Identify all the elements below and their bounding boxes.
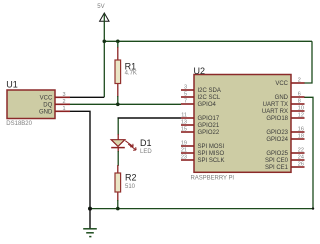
svg-text:3: 3: [184, 85, 187, 91]
resistor R2: [115, 165, 121, 209]
svg-text:23: 23: [181, 155, 187, 161]
left pin names U2: [198, 88, 225, 164]
svg-text:5V: 5V: [97, 4, 104, 10]
svg-text:5: 5: [184, 92, 187, 98]
wire GPIO17 vertical to LED: [117, 119, 119, 136]
pin stub U2.15: [181, 131, 194, 133]
corner dot bottom right: [312, 207, 314, 209]
pin stub U2.19: [181, 145, 194, 147]
svg-text:I2C SCL: I2C SCL: [198, 95, 221, 101]
svg-text:SPI CE0: SPI CE0: [265, 158, 289, 164]
pin stub U2.24: [291, 159, 305, 161]
ground symbol: [83, 209, 97, 237]
svg-text:7: 7: [184, 99, 187, 105]
pin stub U2.13: [181, 124, 194, 126]
wire VCC right vertical: [304, 41, 312, 83]
pin stub U2.18: [291, 138, 305, 140]
svg-text:4.7K: 4.7K: [125, 71, 137, 77]
IC U1 DS18B20: [7, 90, 70, 119]
svg-text:13: 13: [181, 120, 187, 126]
junction ground left: [88, 207, 92, 211]
svg-text:SPI SCLK: SPI SCLK: [198, 158, 225, 164]
svg-text:SPI MISO: SPI MISO: [198, 151, 225, 157]
svg-text:GPIO23: GPIO23: [266, 130, 288, 136]
wire LED to R2: [117, 151, 119, 166]
LED D1: [111, 134, 136, 152]
svg-text:GND: GND: [39, 109, 53, 115]
svg-text:2: 2: [298, 78, 301, 84]
junction R1 bottom: [116, 103, 120, 107]
wire GPIO17 horizontal: [118, 118, 181, 119]
svg-text:22: 22: [298, 148, 304, 154]
svg-text:GPIO24: GPIO24: [266, 137, 288, 143]
svg-text:R2: R2: [125, 173, 137, 183]
wire DQ net: [70, 103, 181, 105]
svg-text:GPIO18: GPIO18: [266, 116, 288, 122]
svg-text:GPIO25: GPIO25: [266, 151, 288, 157]
right pin stubs U2: [291, 83, 305, 167]
svg-text:SPI CE1: SPI CE1: [265, 165, 289, 171]
svg-text:DS18B20: DS18B20: [6, 121, 32, 127]
pin stub U1.2: [55, 103, 70, 105]
wire U1 GND down: [70, 111, 90, 208]
wire U1 VCC to 5V: [70, 96, 104, 98]
svg-text:510: 510: [125, 184, 136, 190]
pin stub U2.2: [291, 82, 305, 84]
junction R2 bottom: [116, 207, 120, 211]
svg-text:LED: LED: [140, 149, 152, 155]
svg-text:19: 19: [181, 141, 187, 147]
svg-text:11: 11: [181, 113, 187, 119]
svg-text:UART TX: UART TX: [263, 102, 288, 108]
svg-text:VCC: VCC: [275, 81, 288, 87]
wire ground rail: [90, 208, 313, 210]
svg-text:1: 1: [62, 106, 65, 112]
svg-text:GND: GND: [275, 95, 289, 101]
svg-text:D1: D1: [140, 138, 152, 148]
pin stub U2.26: [291, 166, 305, 168]
pin stub U2.11: [181, 117, 194, 119]
svg-text:GPIO21: GPIO21: [198, 123, 220, 129]
svg-text:SPI MOSI: SPI MOSI: [198, 144, 225, 150]
pin stub U2.7: [181, 103, 194, 105]
pin stub U2.22: [291, 152, 305, 154]
svg-text:DQ: DQ: [43, 102, 52, 108]
right pin numbers U2: [298, 78, 304, 168]
svg-text:24: 24: [298, 155, 304, 161]
svg-text:U2: U2: [194, 66, 206, 76]
pin stub U1.3: [55, 96, 70, 98]
svg-text:GPIO4: GPIO4: [198, 102, 217, 108]
power symbol 5V arrow: [100, 13, 109, 21]
pin stub U2.10: [291, 110, 305, 112]
svg-text:2: 2: [62, 99, 65, 105]
svg-text:18: 18: [298, 134, 304, 140]
svg-text:15: 15: [181, 127, 187, 133]
svg-text:VCC: VCC: [40, 95, 53, 101]
svg-text:6: 6: [298, 92, 301, 98]
svg-text:UART RX: UART RX: [262, 109, 288, 115]
svg-text:GPIO22: GPIO22: [198, 130, 220, 136]
svg-text:GPIO17: GPIO17: [198, 116, 220, 122]
junction 5V column: [103, 40, 107, 44]
wire VCC top horizontal: [104, 40, 312, 42]
svg-text:26: 26: [298, 162, 304, 168]
svg-text:I2C SDA: I2C SDA: [198, 88, 221, 94]
svg-text:16: 16: [298, 127, 304, 133]
resistor R1: [115, 41, 121, 104]
svg-text:10: 10: [298, 106, 304, 112]
svg-text:RASPBERRY PI: RASPBERRY PI: [191, 176, 235, 182]
pin stub U2.23: [181, 159, 194, 161]
svg-text:U1: U1: [6, 80, 18, 90]
pin stub U2.16: [291, 131, 305, 133]
pin stub U2.8: [291, 103, 305, 105]
wire GND right vertical: [304, 97, 313, 208]
pin stub U2.21: [181, 152, 194, 154]
svg-text:3: 3: [62, 92, 65, 98]
left pin stubs U2: [181, 90, 194, 160]
IC U2 RASPBERRY PI: [194, 75, 291, 173]
left pin numbers U2: [181, 85, 187, 161]
right pin names U2: [262, 81, 289, 171]
svg-text:12: 12: [298, 113, 304, 119]
junction R1 top: [116, 40, 120, 44]
pin stub U2.5: [181, 96, 194, 98]
pin stub U2.12: [291, 117, 305, 119]
pin stub U2.3: [181, 89, 194, 91]
svg-text:8: 8: [298, 99, 301, 105]
wire 5V vertical: [103, 14, 105, 98]
pin stub U2.6: [291, 96, 305, 98]
pin stub U1.1: [55, 110, 70, 112]
svg-text:21: 21: [181, 148, 187, 154]
